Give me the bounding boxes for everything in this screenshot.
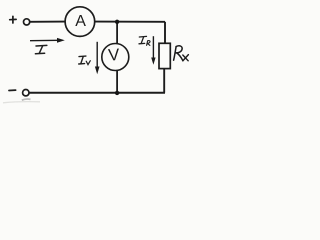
wire: voltmeter bottom to bottom rail xyxy=(116,70,118,92)
label I (main current) xyxy=(35,45,46,53)
subscript v xyxy=(86,61,90,65)
plus terminal symbol xyxy=(10,16,16,23)
label RX (resistor value) xyxy=(174,46,189,61)
paper background xyxy=(0,0,197,116)
current arrow I (main) xyxy=(30,38,65,43)
resistor RX body xyxy=(159,43,170,68)
wire: resistor bottom to bottom rail xyxy=(163,69,165,93)
label IR xyxy=(139,36,150,45)
current arrow IV (into voltmeter) xyxy=(95,42,100,75)
wire: bottom rail xyxy=(29,92,165,94)
wire: junction down to voltmeter xyxy=(116,22,118,44)
junction dot (bottom node) xyxy=(115,91,119,95)
junction dot (top node) xyxy=(115,20,119,24)
node: top input terminal xyxy=(24,19,30,25)
svg-text:A: A xyxy=(75,13,86,30)
node: bottom input terminal xyxy=(23,90,29,96)
wire: top rail left segment (terminal to ammeter) xyxy=(30,21,65,23)
current arrow IR (through resistor) xyxy=(151,36,155,65)
subscript R xyxy=(147,41,150,46)
ammeter A1 body xyxy=(65,7,95,37)
wire: right branch down to resistor xyxy=(164,22,166,44)
voltmeter V1 body xyxy=(102,44,129,71)
svg-text:V: V xyxy=(108,45,121,65)
faint scan smudge below bottom-left terminal xyxy=(22,99,31,100)
minus terminal symbol xyxy=(9,89,16,91)
subscript x xyxy=(183,55,188,61)
wire: top rail right segment (ammeter to top-right corner) xyxy=(95,21,165,23)
label IV xyxy=(79,56,91,65)
